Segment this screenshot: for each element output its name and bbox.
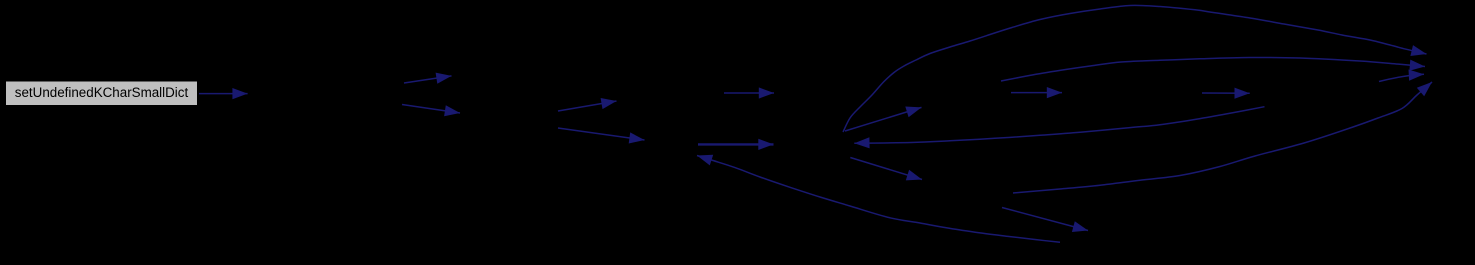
svg-text:setUndefinedKCharSmallDict: setUndefinedKCharSmallDict: [15, 85, 189, 100]
